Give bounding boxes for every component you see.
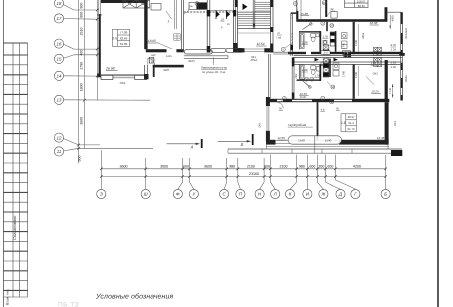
label 16.98 [370,21,379,25]
corridor edge connector [153,65,155,77]
staircase bottom wall right block [264,48,270,52]
intercom note [201,57,228,74]
svg-text:600: 600 [327,164,333,168]
right wing top wall [296,19,384,22]
svg-text:2.39: 2.39 [391,48,397,51]
svg-text:ОК2: ОК2 [295,73,298,79]
circle 20 [330,24,334,28]
label OK3 and swing [366,73,378,85]
svg-text:1.78: 1.78 [323,35,329,38]
detail circle 5 [281,42,293,52]
room area label 26.98 [105,67,118,71]
corridor door arc [184,6,190,14]
big room right wall lower [145,65,148,75]
svg-text:12: 12 [57,135,62,140]
lower door swing [303,81,311,89]
label 2.28 upper [301,40,308,44]
entry wall stub [331,12,337,19]
svg-text:2-Б: 2-Б [341,121,346,125]
svg-text:Э: Э [100,192,103,197]
svg-text:4.8: 4.8 [321,109,325,112]
lower wing bottom window lines [276,141,340,144]
lower wing top wall [266,99,389,102]
label 7.88 [276,32,282,39]
svg-text:61.79: 61.79 [348,127,355,131]
corridor door leaf 2 [334,58,339,62]
big room left wall [99,14,101,74]
svg-text:ОК3: ОК3 [373,73,379,76]
bottom dimension numbers [120,164,362,176]
corridor inner partition lines [175,0,177,29]
label 2.28 lower [301,68,308,72]
left rotated dimension numbers [77,3,83,162]
right outer wall [401,12,403,100]
right wall window bars [401,12,403,100]
vent shaft stack lower [323,59,329,77]
svg-text:3000: 3000 [160,164,168,168]
circle 3 [321,21,325,25]
svg-text:1745: 1745 [389,87,392,93]
svg-text:900: 900 [80,3,84,9]
svg-text:77.89: 77.89 [120,31,128,35]
section mark B line [218,134,254,147]
circle 10 [327,82,335,90]
svg-text:Б: Б [384,192,387,197]
svg-text:4050: 4050 [391,15,394,21]
party wall end cap [399,53,404,56]
top right area table [345,0,369,8]
svg-text:Гардеробная: Гардеробная [288,123,307,127]
leader 3 [166,11,172,24]
circle 21 [322,1,326,5]
porch lines below shaft [184,56,228,59]
right dim 1745 [389,84,393,98]
svg-text:7.88: 7.88 [276,37,282,40]
svg-text:19: 19 [310,77,314,81]
wc fixture upper [323,40,327,44]
svg-text:1745: 1745 [354,71,358,78]
svg-text:12.55: 12.55 [278,136,286,140]
svg-text:1.85: 1.85 [149,61,155,64]
label 12.55 lower apt [299,92,308,96]
lower wing right wall [385,102,389,144]
label 12.55 wing [277,136,286,140]
shaft lintel line [210,9,234,11]
bottom dim tick slashes [100,168,387,178]
svg-text:ОК1: ОК1 [394,120,397,126]
svg-text:2100: 2100 [247,164,255,168]
lower wing left window [267,106,269,131]
svg-text:2-5: 2-5 [112,37,117,41]
svg-text:600: 600 [264,164,270,168]
shaft bottom sill capsules [184,48,243,54]
label 50 right [336,108,340,111]
labels 8.78 / 2.39 [390,44,396,51]
shaft labels [220,18,230,29]
kitchen vent block right upper [374,47,382,55]
svg-text:14: 14 [57,74,62,79]
lower apt bathroom bottom wall [297,79,321,81]
left outer wall of wing [291,13,293,56]
svg-text:Д: Д [338,192,342,197]
svg-text:61.4: 61.4 [348,121,354,125]
svg-text:ОК1: ОК1 [120,81,126,85]
NE step wall block [385,7,388,22]
apartment area table [112,29,129,46]
staircase right wall [270,0,273,53]
lower apt partition wall [353,64,355,98]
left dim tick slashes [77,9,98,150]
kitchen counters upper [342,33,348,49]
svg-text:2.04: 2.04 [149,57,155,60]
staircase direction arrow [253,24,255,28]
svg-text:ОК14а/Н: ОК14а/Н [405,28,408,39]
svg-text:21: 21 [323,1,327,5]
svg-text:23160: 23160 [249,172,259,176]
circle 2 door [277,97,286,109]
mid vent cells above party wall [323,45,329,54]
circle 8 [330,100,334,104]
left axis circles column [54,0,63,156]
toilet upper [311,34,316,42]
svg-text:1745: 1745 [342,42,346,49]
big room bottom sill box left [101,75,113,79]
svg-text:600: 600 [183,164,189,168]
corridor mid wall right part [176,49,183,52]
svg-text:по улице 18 - 3 зв.: по улице 18 - 3 зв. [202,70,226,74]
svg-text:980: 980 [299,164,305,168]
svg-text:22: 22 [331,7,335,11]
NE thin roof line [387,11,401,13]
terrace line top [228,148,402,150]
big room bottom sill box right [135,75,147,79]
svg-text:ЭК9а: ЭК9а [362,32,365,39]
party wall upper lines [294,55,402,57]
bathroom top wall [299,31,321,32]
svg-text:18.65: 18.65 [148,39,156,43]
svg-text:Ф: Ф [176,192,180,197]
kitchen wall upper [335,31,337,52]
svg-text:16.98: 16.98 [370,21,378,25]
svg-text:ВК/П: ВК/П [189,60,195,63]
svg-text:15: 15 [57,57,62,62]
svg-text:Взам. инв.: Взам. инв. [6,289,10,305]
party wall vent block [344,52,351,58]
left wall hatch strokes [291,14,293,41]
bottom axis circles [97,189,391,198]
entry partition vertical [296,0,298,19]
svg-text:16: 16 [57,41,62,46]
svg-text:Х-П: Х-П [323,52,327,55]
garderob label [288,123,313,127]
svg-text:16.35: 16.35 [377,136,385,140]
terrace posts [228,149,352,153]
svg-text:1540: 1540 [325,139,332,143]
big room bottom window [113,76,135,78]
window dim lens [288,136,342,144]
svg-text:10: 10 [331,85,335,89]
svg-text:3600: 3600 [204,164,212,168]
svg-text:Б: Б [241,142,244,147]
svg-text:5.52: 5.52 [371,62,377,65]
svg-text:400: 400 [80,50,84,56]
svg-text:26.98: 26.98 [105,67,115,71]
label 5.52 [371,62,377,65]
svg-text:ЭК/П: ЭК/П [163,69,169,72]
staircase treads [238,2,271,33]
labels 3.28 / 2.69 [390,62,396,69]
svg-text:10.35: 10.35 [300,96,307,99]
big room SW corner block [97,74,100,78]
lower bathroom left wall [298,64,300,81]
label 16.35 [377,136,386,140]
svg-text:1800: 1800 [80,83,84,91]
kitchen box [189,3,197,10]
svg-text:28.97: 28.97 [348,115,355,119]
svg-text:ПБ.ТЗ: ПБ.ТЗ [58,302,79,307]
dashed lintel lines [184,11,236,12]
svg-text:8.78: 8.78 [391,44,397,47]
shaft door leaf 1 [216,10,220,19]
svg-text:600: 600 [309,164,315,168]
svg-text:18: 18 [57,1,62,6]
vent shaft stack upper [330,32,335,46]
svg-text:3600: 3600 [120,164,128,168]
svg-text:1.78: 1.78 [315,75,321,78]
svg-text:62.69: 62.69 [120,36,128,40]
labels 2.04 1.85 [149,57,156,64]
area table 2-B [341,114,356,132]
toilet lower [311,66,316,75]
svg-text:ЛЛ1б: ЛЛ1б [251,59,258,62]
bottom dimension line 1 [101,168,385,170]
big room top wall [101,0,147,3]
big room left wall window [99,0,101,14]
upper apt partition wall [353,22,355,54]
svg-text:158.67: 158.67 [357,0,366,3]
svg-text:А: А [190,145,194,150]
svg-text:900: 900 [80,12,84,18]
svg-text:500: 500 [77,156,81,162]
svg-text:980: 980 [229,164,235,168]
title strip table [3,43,27,297]
kitchen vent block right lower [374,57,382,66]
svg-text:ОК1: ОК1 [259,122,262,128]
lower apt inner right wall [385,60,388,101]
passage wall below stair [269,54,271,99]
plinth line under wing [266,145,389,147]
shaft door leaf 2 [226,10,230,19]
lower left wall dark blocks [292,57,294,66]
svg-text:20: 20 [330,24,334,28]
svg-text:23: 23 [305,77,309,81]
lower wing NW corner block [266,97,270,106]
corridor door leaf 1 [315,58,320,62]
wc label 1.78 [322,35,328,38]
lobby door arc [148,58,155,65]
bathtub upper [300,34,304,49]
bathroom right wall [319,31,321,52]
corridor tile grid [174,34,180,40]
upper apt door swing [303,23,313,30]
svg-text:Согласовано: Согласовано [12,215,17,240]
svg-text:50: 50 [279,108,282,111]
section mark A line [167,139,203,150]
sheet right border line [437,0,439,307]
svg-text:3.28: 3.28 [391,62,397,65]
circle 7 [321,96,325,100]
svg-text:1790: 1790 [80,62,84,70]
lower wing top windows thin [277,100,352,102]
kitchen wall lower [329,59,331,77]
label 12.54 [256,42,266,46]
svg-text:2.28: 2.28 [301,40,308,44]
svg-text:88.36: 88.36 [358,4,365,8]
svg-text:К: К [289,192,292,197]
wing NW corner cap [291,12,297,14]
svg-text:61.89: 61.89 [120,42,128,46]
upper partition dim 1745 [354,24,358,52]
svg-text:1745: 1745 [354,39,358,46]
label 50 left [279,108,283,111]
staircase bottom window [245,49,265,51]
left wall sill line [98,14,102,16]
bottom extension ticks [101,150,385,178]
label 22 [327,7,335,16]
right dim 4050 [389,15,394,29]
stairwell door flag [243,4,248,11]
label 15.88 [300,12,309,16]
staircase center divider [253,0,255,29]
svg-text:12.54: 12.54 [257,42,265,46]
svg-text:2510: 2510 [80,28,84,36]
svg-text:15.88: 15.88 [301,12,309,16]
corridor right partition [181,0,183,50]
bottom dimension line 2 [101,176,385,178]
svg-text:3600: 3600 [80,117,84,125]
wall-terrace connectors [266,144,388,153]
svg-text:ОК4а: ОК4а [405,75,408,82]
svg-text:2100: 2100 [280,164,288,168]
big room bottom wall line [101,74,147,76]
svg-text:1540: 1540 [298,139,305,143]
entry wall vertical [325,0,327,17]
lower wing SW corner block [266,131,270,142]
framed panel label lower [321,62,330,66]
sheet left border line [2,0,4,307]
shaft right wall [233,0,237,53]
left vertical dimension lines [79,0,98,164]
staircase bottom wall left block [238,48,245,52]
corridor bottom wall [153,65,184,68]
wc fixture lower [317,67,320,72]
svg-text:1745: 1745 [342,70,346,77]
svg-text:11: 11 [57,149,62,154]
axis leader lines [64,5,154,151]
lower wing bottom wall right [339,140,389,145]
kitchen counters lower [333,63,339,76]
bottom axis circle leaders [101,178,385,190]
svg-text:4200: 4200 [353,164,361,168]
svg-text:2.28: 2.28 [301,68,308,72]
lower partition dim 1745 [354,66,358,96]
big room right wall upper [144,0,147,49]
svg-text:17: 17 [57,16,62,21]
lower wing partition [317,102,319,140]
party wall lower lines [294,62,402,64]
electric stove black box [197,2,207,9]
corridor cabinet box [151,4,161,11]
bathroom left wall [298,31,300,49]
lower bathroom right wall [319,64,321,81]
svg-text:1235: 1235 [166,55,172,58]
framed panel label upper 2 [343,51,351,55]
wall stub above bathroom [326,22,328,31]
svg-text:300: 300 [318,164,324,168]
sink upper [316,34,319,37]
upper rooms cut partitions [301,0,321,19]
svg-text:19.29: 19.29 [371,90,379,94]
svg-text:2.69: 2.69 [391,66,397,69]
label LK1 [251,56,258,62]
detail circle 9 top [195,2,200,11]
svg-text:Л: Л [221,27,223,30]
bathtub lower [300,65,304,79]
lower apt left outer wall [292,57,294,98]
terrace line bottom [228,152,402,154]
left wall hatch block [290,45,293,51]
corridor label 18.65 [148,39,172,49]
vent shaft X at top of big room [123,0,150,8]
lower wing bottom wall left [266,140,276,145]
wc lower label [314,75,320,78]
svg-text:50: 50 [336,108,339,111]
porch wall stair to wing [273,52,292,54]
svg-text:13: 13 [57,98,62,103]
circles 23 19 [305,77,314,81]
framed panel label upper [321,51,330,55]
circle 6 [293,1,297,10]
label 4.8 [320,109,325,112]
upper apt bottom wall segments [288,52,306,54]
terrace end block [391,150,402,156]
corridor mid wall left part [146,49,167,52]
label 19.29 [371,90,381,94]
svg-text:Условные обозначения: Условные обозначения [95,293,173,301]
shaft left wall [207,0,210,53]
